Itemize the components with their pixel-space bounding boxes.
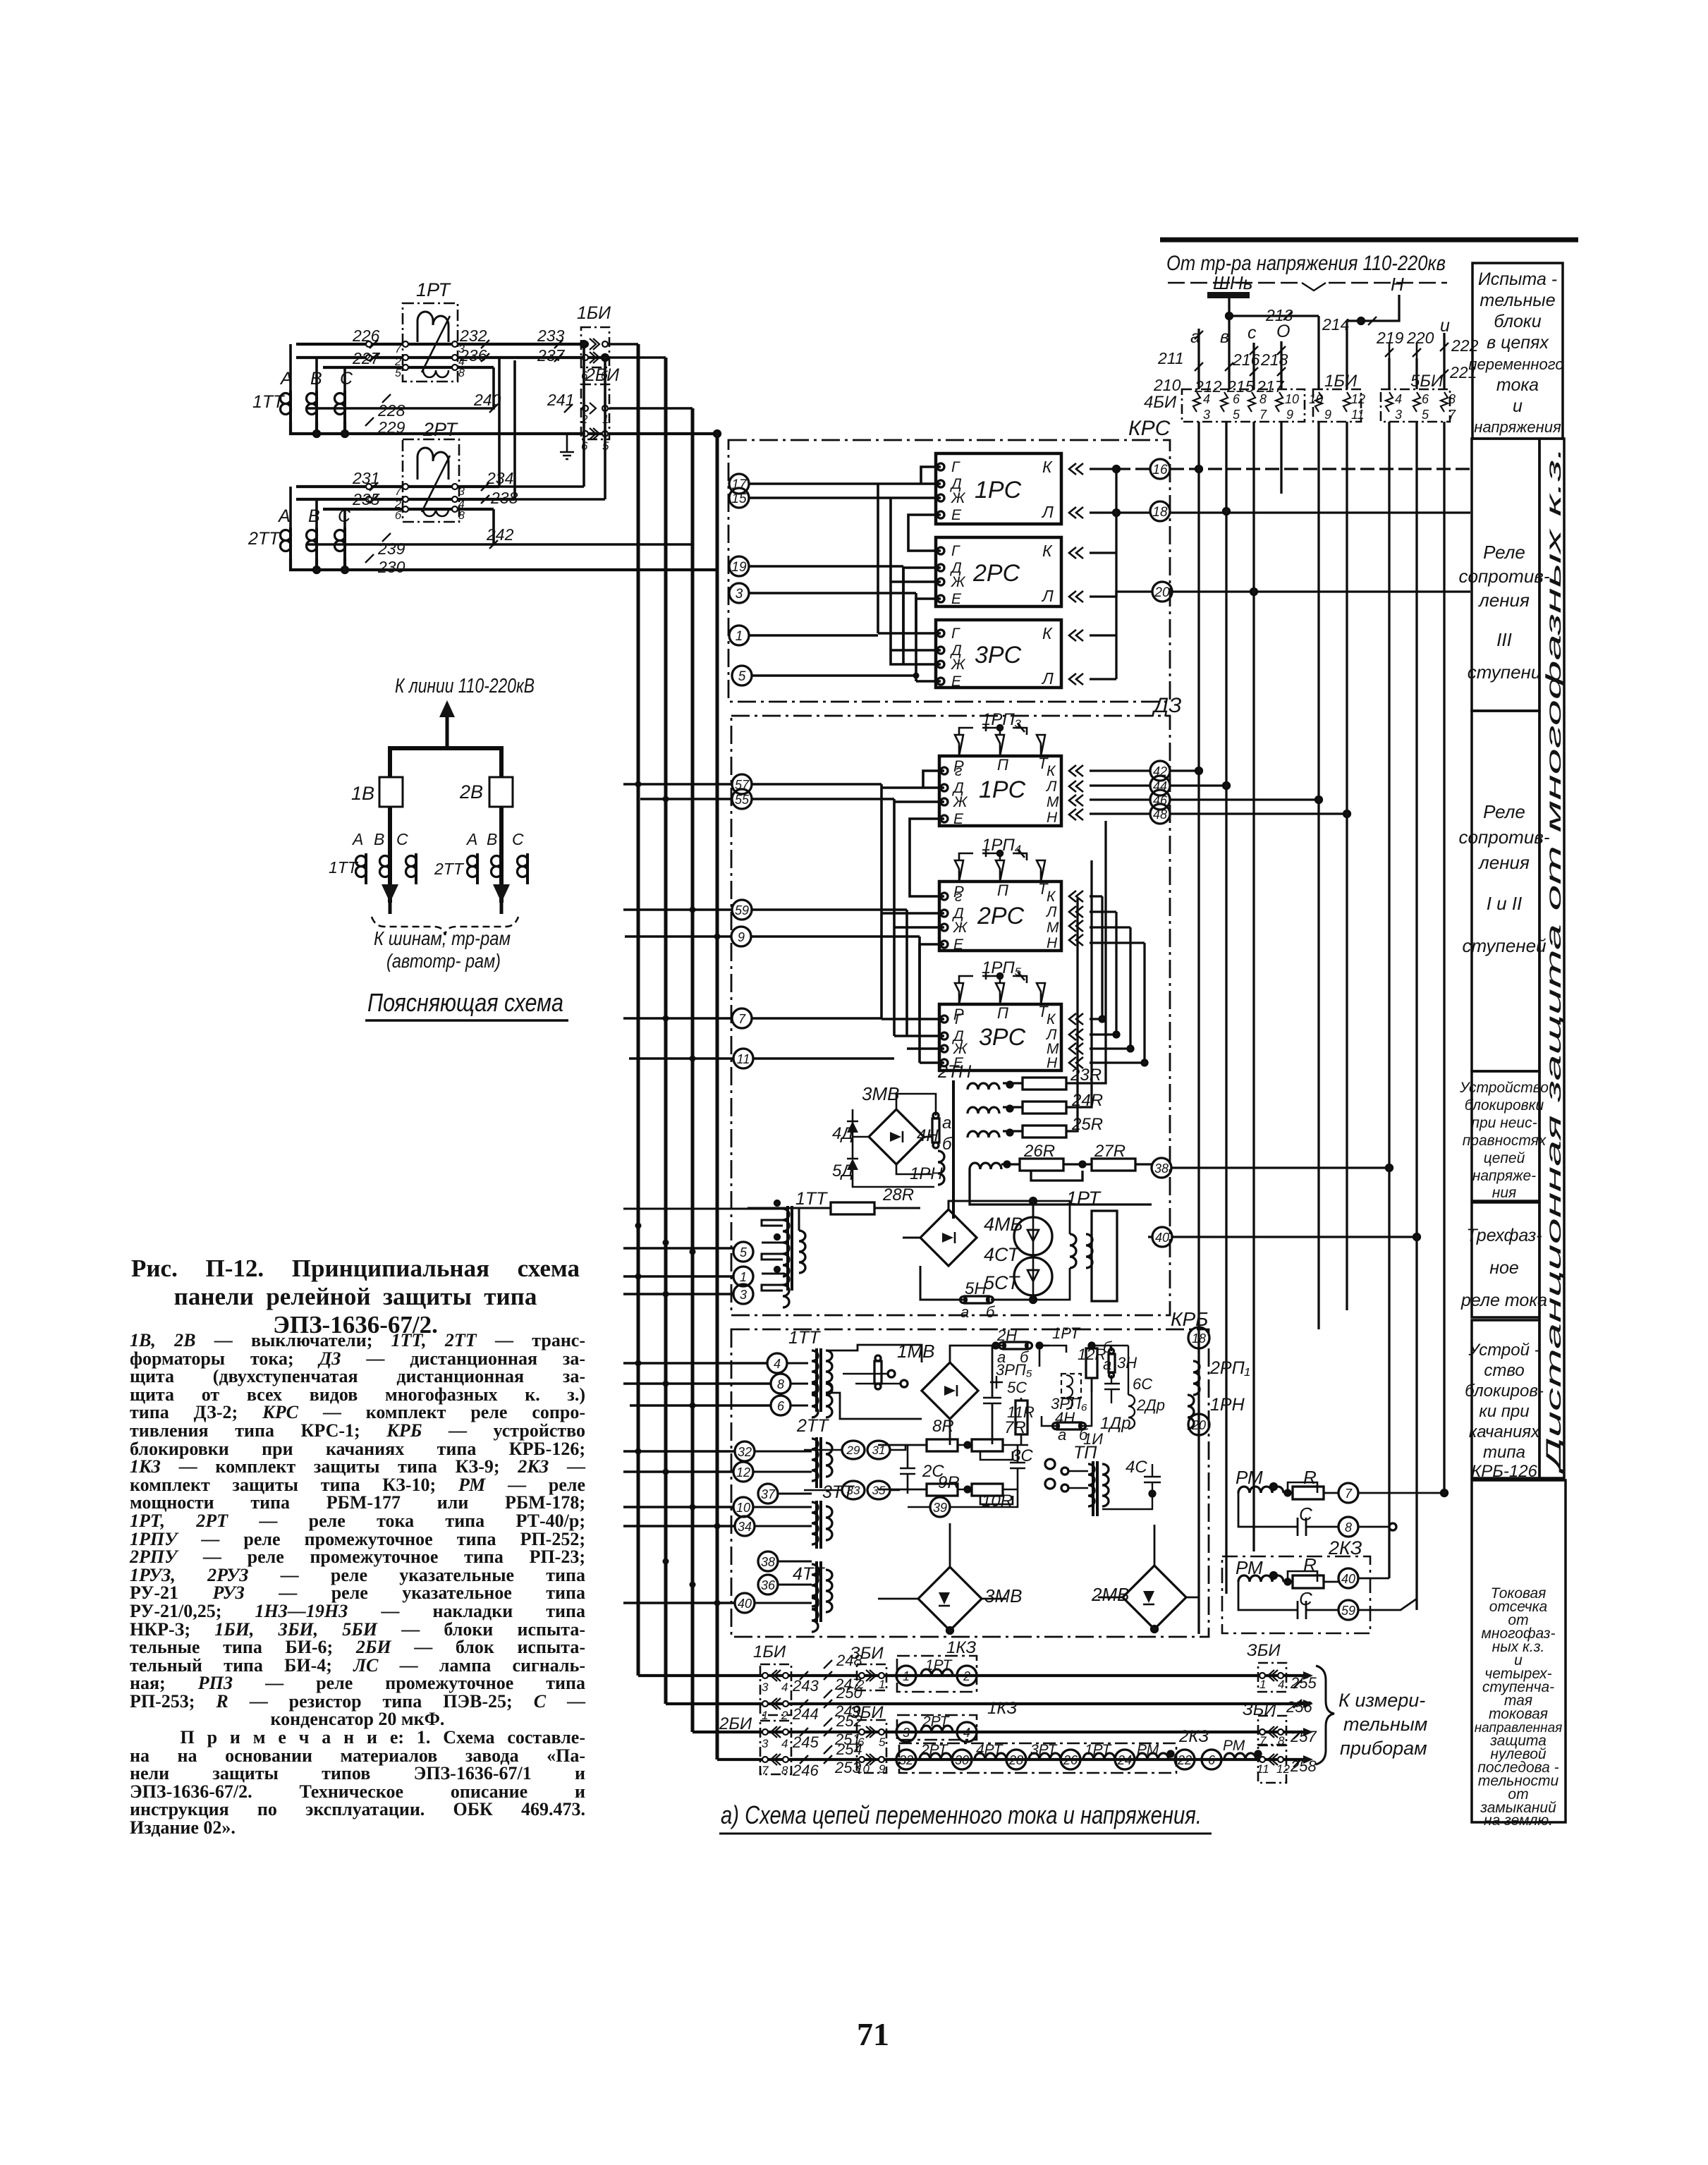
svg-text:35: 35 (872, 1484, 886, 1497)
svg-text:3: 3 (762, 1681, 769, 1694)
svg-text:2ТТ: 2ТТ (248, 529, 281, 549)
svg-text:2КЗ: 2КЗ (1178, 1727, 1209, 1746)
svg-text:218: 218 (1260, 350, 1288, 369)
svg-text:8: 8 (781, 1764, 788, 1777)
svg-text:1РТ: 1РТ (1066, 1188, 1102, 1209)
svg-text:В: В (487, 830, 497, 848)
svg-text:4: 4 (1203, 392, 1210, 406)
svg-text:2В: 2В (459, 781, 483, 803)
svg-text:Л: Л (1045, 904, 1057, 920)
svg-text:а) Схема цепей переменного то: а) Схема цепей переменного тока и напряж… (721, 1800, 1202, 1829)
svg-text:РМ: РМ (1236, 1467, 1263, 1488)
svg-text:А: А (465, 830, 477, 848)
svg-text:244: 244 (792, 1705, 819, 1723)
svg-text:8: 8 (1448, 392, 1456, 406)
svg-text:К: К (1042, 542, 1053, 560)
svg-text:приборам: приборам (1340, 1738, 1427, 1759)
svg-text:48: 48 (1153, 807, 1167, 822)
svg-text:36: 36 (761, 1578, 776, 1592)
svg-text:Г: Г (951, 543, 960, 559)
svg-text:К: К (1047, 1011, 1056, 1027)
svg-text:В: В (374, 830, 384, 848)
svg-text:1РТ: 1РТ (1085, 1742, 1113, 1758)
svg-text:6: 6 (1422, 392, 1429, 406)
svg-text:В: В (308, 506, 320, 526)
svg-text:сопротив-: сопротив- (1458, 827, 1549, 848)
svg-text:Е: Е (951, 673, 962, 690)
svg-text:3: 3 (736, 587, 743, 602)
svg-text:Поясняющая схема: Поясняющая схема (367, 988, 563, 1017)
svg-text:блокиров-: блокиров- (1465, 1382, 1544, 1401)
svg-text:Л: Л (1045, 779, 1057, 795)
svg-text:12: 12 (736, 1465, 750, 1480)
svg-text:8: 8 (458, 367, 465, 379)
svg-text:при неис-: при неис- (1471, 1115, 1537, 1131)
svg-text:1РН: 1РН (1210, 1395, 1245, 1415)
svg-text:232: 232 (459, 327, 487, 345)
svg-text:Устрой -: Устрой - (1468, 1341, 1539, 1360)
svg-text:7: 7 (1259, 1734, 1267, 1748)
svg-text:5С: 5С (1007, 1379, 1027, 1396)
svg-text:1: 1 (762, 1709, 768, 1722)
svg-text:4: 4 (963, 1726, 970, 1740)
svg-text:ЗБИ: ЗБИ (1247, 1641, 1281, 1660)
svg-text:3: 3 (1203, 408, 1210, 422)
svg-text:2: 2 (394, 356, 401, 368)
svg-text:4РТ: 4РТ (976, 1742, 1004, 1758)
svg-text:1ТТ: 1ТТ (329, 858, 359, 877)
svg-text:230: 230 (377, 558, 405, 576)
svg-text:1Др: 1Др (1100, 1414, 1131, 1433)
svg-text:Л: Л (1041, 587, 1054, 605)
svg-text:1: 1 (736, 629, 743, 644)
svg-text:220: 220 (1406, 329, 1434, 347)
svg-text:С: С (396, 830, 408, 848)
svg-text:221: 221 (1449, 363, 1477, 382)
svg-text:КРС: КРС (1128, 417, 1171, 440)
svg-text:цепей: цепей (1484, 1150, 1525, 1166)
svg-text:(автотр- рам): (автотр- рам) (386, 950, 501, 972)
svg-text:О: О (1276, 322, 1290, 341)
svg-text:Реле: Реле (1483, 542, 1525, 563)
svg-text:6: 6 (858, 1736, 865, 1749)
svg-text:1РС: 1РС (975, 477, 1022, 504)
svg-text:229: 229 (377, 418, 405, 437)
svg-text:243: 243 (792, 1677, 819, 1695)
svg-text:12: 12 (1351, 392, 1365, 406)
svg-text:5БИ: 5БИ (1410, 372, 1444, 391)
svg-text:28R: 28R (882, 1185, 914, 1205)
svg-text:блокировки: блокировки (1465, 1097, 1544, 1114)
svg-text:256: 256 (1286, 1698, 1312, 1716)
svg-text:11: 11 (1351, 408, 1365, 422)
svg-text:Реле: Реле (1483, 801, 1525, 822)
svg-text:б: б (395, 510, 402, 522)
svg-text:сопротив-: сопротив- (1458, 566, 1549, 587)
svg-text:214: 214 (1322, 315, 1349, 334)
svg-text:4: 4 (774, 1357, 781, 1371)
svg-text:1РС: 1РС (979, 776, 1026, 803)
svg-text:219: 219 (1376, 329, 1404, 347)
svg-text:2РТ: 2РТ (422, 419, 459, 440)
svg-text:252: 252 (836, 1712, 862, 1730)
svg-text:2БИ: 2БИ (719, 1714, 752, 1733)
svg-text:2: 2 (781, 1709, 788, 1722)
svg-text:в цепях: в цепях (1487, 333, 1549, 353)
svg-text:с: с (1248, 323, 1257, 343)
svg-text:235: 235 (352, 490, 380, 508)
svg-text:9: 9 (738, 930, 745, 944)
svg-text:40: 40 (1155, 1231, 1169, 1245)
svg-text:а: а (960, 1303, 969, 1321)
svg-text:39: 39 (933, 1501, 947, 1515)
svg-text:213: 213 (1265, 306, 1293, 324)
svg-text:2: 2 (394, 499, 401, 511)
svg-text:2Др: 2Др (1136, 1396, 1165, 1414)
svg-text:б: б (942, 1135, 953, 1154)
svg-text:1КЗ: 1КЗ (987, 1699, 1017, 1718)
svg-text:М: М (1047, 794, 1059, 810)
svg-text:2МВ: 2МВ (1091, 1584, 1129, 1605)
svg-text:4БИ: 4БИ (1144, 393, 1177, 412)
svg-text:Е: Е (953, 937, 964, 953)
svg-text:228: 228 (377, 401, 405, 420)
svg-text:44: 44 (1153, 779, 1167, 793)
svg-text:7: 7 (395, 343, 402, 355)
svg-text:Устройство: Устройство (1459, 1080, 1549, 1096)
svg-text:Л: Л (1041, 503, 1054, 521)
svg-text:в: в (1220, 327, 1229, 347)
svg-text:напряже-: напряже- (1472, 1168, 1536, 1184)
svg-text:7: 7 (1259, 408, 1267, 422)
svg-text:240: 240 (473, 391, 501, 409)
svg-text:59: 59 (735, 903, 749, 917)
svg-text:30: 30 (955, 1753, 969, 1767)
svg-text:4: 4 (1395, 392, 1402, 406)
svg-text:5: 5 (740, 1245, 748, 1260)
svg-text:переменного: переменного (1468, 355, 1563, 373)
svg-text:токовая: токовая (1489, 1706, 1548, 1722)
svg-text:1И: 1И (1083, 1430, 1103, 1448)
svg-text:42: 42 (1153, 764, 1167, 779)
svg-text:4СТ: 4СТ (984, 1244, 1021, 1265)
svg-text:57: 57 (735, 778, 750, 792)
svg-text:ки при: ки при (1479, 1402, 1529, 1421)
svg-text:2: 2 (857, 1678, 865, 1691)
svg-text:Ж: Ж (951, 490, 966, 506)
svg-text:12: 12 (1276, 1762, 1290, 1776)
svg-text:Г: Г (951, 459, 960, 475)
svg-text:7: 7 (762, 1764, 769, 1777)
svg-text:46: 46 (1153, 793, 1168, 807)
svg-text:20: 20 (1154, 585, 1170, 600)
svg-text:15: 15 (731, 492, 747, 506)
svg-text:227: 227 (352, 349, 381, 367)
svg-text:6: 6 (1233, 392, 1240, 406)
svg-text:5: 5 (395, 367, 401, 379)
svg-text:7: 7 (395, 486, 402, 498)
svg-text:напряжения: напряжения (1474, 418, 1561, 436)
svg-text:К измери-: К измери- (1338, 1690, 1425, 1711)
svg-text:От тр-ра напряжения 110-220кв: От тр-ра напряжения 110-220кв (1166, 252, 1446, 275)
svg-text:10: 10 (856, 1762, 870, 1776)
svg-text:71: 71 (857, 2016, 889, 2052)
svg-text:32: 32 (738, 1445, 752, 1459)
svg-text:2: 2 (963, 1669, 970, 1683)
svg-text:1РТ: 1РТ (1052, 1324, 1081, 1342)
svg-text:2ТТ: 2ТТ (434, 860, 465, 878)
svg-text:R: R (1303, 1554, 1317, 1575)
svg-text:239: 239 (377, 539, 405, 558)
svg-text:г: г (955, 763, 962, 779)
svg-text:3РП₅: 3РП₅ (996, 1361, 1032, 1379)
svg-text:ступени: ступени (1468, 661, 1542, 683)
svg-text:210: 210 (1153, 376, 1181, 394)
svg-text:23R: 23R (1070, 1066, 1102, 1085)
svg-text:2РП₁: 2РП₁ (1209, 1358, 1250, 1378)
svg-text:С: С (340, 369, 353, 389)
svg-text:3ТТ: 3ТТ (822, 1482, 855, 1502)
svg-text:Е: Е (951, 591, 962, 607)
svg-text:7: 7 (1448, 408, 1456, 422)
svg-text:6: 6 (777, 1399, 785, 1413)
svg-text:К: К (1042, 624, 1053, 642)
svg-text:4С: 4С (1126, 1458, 1147, 1477)
svg-text:А: А (351, 830, 363, 848)
svg-text:16: 16 (1152, 463, 1168, 477)
svg-text:К шинам, тр-рам: К шинам, тр-рам (374, 927, 511, 949)
svg-text:Н: Н (1047, 935, 1058, 951)
svg-text:Е: Е (953, 811, 964, 827)
svg-text:2ТТ: 2ТТ (796, 1416, 829, 1436)
svg-text:Трехфаз-: Трехфаз- (1466, 1226, 1542, 1245)
svg-text:255: 255 (1290, 1674, 1317, 1692)
svg-text:7: 7 (1345, 1487, 1353, 1501)
svg-text:24: 24 (1117, 1753, 1132, 1767)
svg-text:Г: Г (955, 1011, 964, 1027)
svg-text:38: 38 (1154, 1161, 1169, 1176)
svg-text:245: 245 (792, 1733, 819, 1751)
svg-text:а: а (942, 1114, 951, 1133)
svg-text:КРБ-126: КРБ-126 (1471, 1462, 1537, 1481)
svg-text:1МВ: 1МВ (897, 1341, 934, 1362)
svg-text:Н: Н (1047, 1055, 1058, 1071)
svg-text:32: 32 (899, 1753, 913, 1767)
svg-text:5: 5 (738, 669, 746, 684)
svg-text:Н: Н (1047, 810, 1058, 826)
svg-text:9: 9 (1286, 408, 1293, 422)
svg-text:7R: 7R (1004, 1418, 1026, 1437)
svg-text:5: 5 (1233, 408, 1240, 422)
svg-text:4: 4 (458, 499, 465, 511)
svg-text:2РТ: 2РТ (922, 1714, 951, 1730)
svg-text:8R: 8R (932, 1417, 954, 1436)
svg-text:4: 4 (781, 1681, 788, 1694)
svg-text:тока: тока (1496, 375, 1539, 395)
svg-text:3: 3 (740, 1288, 747, 1302)
svg-text:257: 257 (1290, 1728, 1317, 1745)
svg-text:и: и (1440, 316, 1450, 336)
svg-text:3РС: 3РС (979, 1024, 1026, 1051)
svg-text:1: 1 (1259, 1678, 1266, 1691)
svg-text:2РТ: 2РТ (920, 1742, 949, 1758)
svg-text:236: 236 (459, 346, 487, 365)
svg-text:3: 3 (458, 486, 465, 498)
svg-text:правностях: правностях (1463, 1133, 1547, 1149)
svg-text:248: 248 (836, 1652, 862, 1669)
svg-text:246: 246 (792, 1762, 819, 1779)
svg-text:8: 8 (777, 1377, 784, 1391)
svg-text:4: 4 (781, 1737, 788, 1750)
svg-text:Ж: Ж (953, 920, 968, 936)
svg-text:1: 1 (903, 1669, 910, 1683)
svg-text:2КЗ: 2КЗ (1328, 1537, 1362, 1559)
svg-text:Дистанционная защита от мно: Дистанционная защита от многофазных к.з. (1542, 446, 1566, 1475)
svg-text:216: 216 (1232, 350, 1260, 369)
svg-text:6С: 6С (1133, 1375, 1152, 1393)
svg-text:а: а (1103, 1355, 1111, 1373)
svg-text:1В: 1В (351, 783, 374, 804)
svg-text:К: К (1047, 889, 1056, 905)
svg-text:блоки: блоки (1494, 312, 1541, 331)
svg-text:5: 5 (1422, 408, 1429, 422)
svg-text:17: 17 (731, 477, 748, 492)
svg-text:215: 215 (1226, 377, 1255, 396)
svg-text:40: 40 (1341, 1572, 1355, 1586)
svg-text:1: 1 (740, 1270, 747, 1284)
svg-text:П: П (997, 1004, 1008, 1022)
svg-text:1ТТ: 1ТТ (795, 1189, 828, 1209)
svg-text:П: П (997, 882, 1008, 899)
svg-text:б: б (986, 1303, 996, 1321)
svg-text:19: 19 (731, 560, 747, 575)
svg-text:59: 59 (1341, 1604, 1355, 1618)
svg-text:3Н: 3Н (1117, 1354, 1137, 1372)
svg-text:3МВ: 3МВ (984, 1585, 1022, 1606)
svg-text:8: 8 (1259, 392, 1267, 406)
svg-text:Л: Л (1041, 669, 1054, 688)
svg-text:3РС: 3РС (975, 642, 1022, 669)
svg-text:31: 31 (872, 1444, 886, 1457)
svg-text:1КЗ: 1КЗ (946, 1638, 976, 1657)
svg-text:реле тока: реле тока (1460, 1291, 1547, 1310)
svg-text:1РТ: 1РТ (416, 279, 452, 300)
svg-text:ство: ство (1484, 1361, 1524, 1380)
svg-text:1БИ: 1БИ (1324, 372, 1358, 391)
svg-text:34: 34 (738, 1520, 752, 1534)
svg-text:г: г (955, 889, 962, 905)
svg-text:6: 6 (1208, 1753, 1216, 1767)
svg-text:I и II: I и II (1487, 893, 1523, 914)
svg-text:2РС: 2РС (977, 903, 1025, 929)
svg-text:222: 222 (1451, 336, 1479, 355)
svg-text:1БИ: 1БИ (753, 1642, 786, 1661)
svg-text:РМ: РМ (1223, 1738, 1245, 1754)
svg-text:10: 10 (736, 1501, 750, 1515)
svg-text:ступеней: ступеней (1462, 935, 1546, 956)
svg-text:К линии 110-220кВ: К линии 110-220кВ (395, 675, 535, 697)
svg-text:3: 3 (762, 1737, 769, 1750)
svg-text:III: III (1496, 629, 1512, 650)
svg-text:ДЗ: ДЗ (1152, 694, 1182, 717)
svg-text:2ТН: 2ТН (937, 1062, 972, 1082)
svg-text:Ж: Ж (951, 574, 966, 590)
svg-text:ления: ления (1477, 590, 1530, 611)
svg-text:55: 55 (735, 793, 750, 807)
svg-text:3РТ: 3РТ (1030, 1742, 1059, 1758)
svg-text:8: 8 (1345, 1520, 1352, 1535)
svg-text:на землю.: на землю. (1484, 1812, 1553, 1829)
svg-text:3МВ: 3МВ (862, 1083, 899, 1104)
svg-text:3: 3 (1395, 408, 1402, 422)
svg-text:9: 9 (879, 1762, 886, 1776)
svg-text:РМ: РМ (1236, 1557, 1263, 1578)
svg-text:ния: ния (1492, 1185, 1516, 1201)
svg-text:1БИ: 1БИ (577, 303, 611, 323)
svg-text:1: 1 (879, 1678, 885, 1691)
svg-text:тельные: тельные (1480, 291, 1555, 310)
svg-text:40: 40 (738, 1597, 752, 1611)
svg-text:П: П (997, 756, 1008, 774)
svg-text:С: С (512, 830, 524, 848)
svg-text:Испыта -: Испыта - (1478, 269, 1557, 289)
svg-text:18: 18 (1152, 505, 1168, 520)
svg-text:2Н: 2Н (996, 1327, 1017, 1344)
svg-text:2РС: 2РС (972, 560, 1020, 587)
svg-text:R: R (1303, 1467, 1317, 1488)
svg-text:7: 7 (738, 1012, 746, 1026)
svg-text:9: 9 (1324, 408, 1331, 422)
svg-text:8: 8 (458, 510, 465, 522)
svg-text:11: 11 (737, 1052, 750, 1066)
svg-text:качаниях: качаниях (1469, 1422, 1540, 1441)
svg-text:18: 18 (1192, 1331, 1206, 1346)
svg-text:28: 28 (1008, 1753, 1023, 1767)
svg-text:ления: ления (1477, 852, 1530, 873)
svg-text:К: К (1047, 763, 1056, 779)
svg-text:29: 29 (846, 1444, 860, 1457)
svg-text:ное: ное (1489, 1258, 1519, 1278)
svg-text:и: и (1513, 396, 1523, 416)
svg-text:типа: типа (1483, 1443, 1525, 1462)
svg-text:Е: Е (951, 507, 962, 523)
svg-text:8: 8 (1278, 1734, 1285, 1748)
svg-text:11: 11 (1257, 1762, 1269, 1776)
svg-text:Ж: Ж (951, 657, 966, 673)
svg-text:22: 22 (1177, 1753, 1192, 1767)
svg-text:10: 10 (1285, 392, 1299, 406)
svg-text:211: 211 (1157, 349, 1184, 367)
svg-text:3: 3 (903, 1726, 910, 1740)
svg-text:4: 4 (1278, 1678, 1284, 1691)
svg-text:38: 38 (761, 1555, 775, 1569)
svg-text:5: 5 (879, 1736, 886, 1749)
svg-text:А: А (277, 506, 291, 526)
svg-text:К: К (1042, 458, 1053, 476)
svg-text:Г: Г (951, 626, 960, 642)
svg-text:26: 26 (1063, 1753, 1078, 1767)
svg-text:Ж: Ж (953, 794, 968, 810)
svg-text:М: М (1047, 920, 1059, 936)
svg-text:тельным: тельным (1343, 1714, 1427, 1735)
svg-text:242: 242 (486, 525, 514, 544)
